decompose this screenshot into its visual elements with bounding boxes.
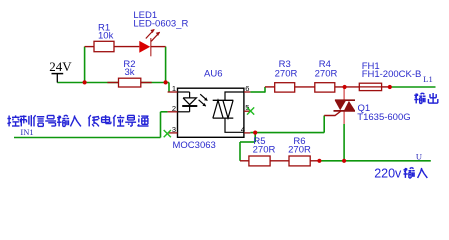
svg-text:4: 4 bbox=[241, 125, 245, 134]
svg-text:270R: 270R bbox=[288, 144, 311, 155]
svg-text:3k: 3k bbox=[124, 67, 134, 78]
svg-text:L1: L1 bbox=[423, 74, 432, 84]
svg-text:10k: 10k bbox=[98, 30, 114, 41]
svg-text:3: 3 bbox=[172, 125, 176, 134]
svg-text:AU6: AU6 bbox=[204, 68, 222, 79]
svg-text:FH1-200CK-B: FH1-200CK-B bbox=[362, 69, 422, 80]
svg-text:270R: 270R bbox=[315, 69, 338, 80]
svg-text:1: 1 bbox=[172, 84, 176, 93]
svg-text:2: 2 bbox=[172, 104, 176, 113]
svg-text:T1635-600G: T1635-600G bbox=[357, 112, 410, 123]
svg-text:24V: 24V bbox=[49, 59, 72, 74]
svg-text:6: 6 bbox=[245, 84, 249, 93]
svg-text:220v: 220v bbox=[374, 167, 402, 181]
svg-text:IN1: IN1 bbox=[20, 127, 33, 137]
svg-text:MOC3063: MOC3063 bbox=[173, 140, 216, 151]
svg-text:270R: 270R bbox=[275, 69, 298, 80]
svg-text:270R: 270R bbox=[253, 144, 276, 155]
svg-text:LED-0603_R: LED-0603_R bbox=[133, 19, 188, 30]
svg-text:U: U bbox=[416, 152, 422, 162]
